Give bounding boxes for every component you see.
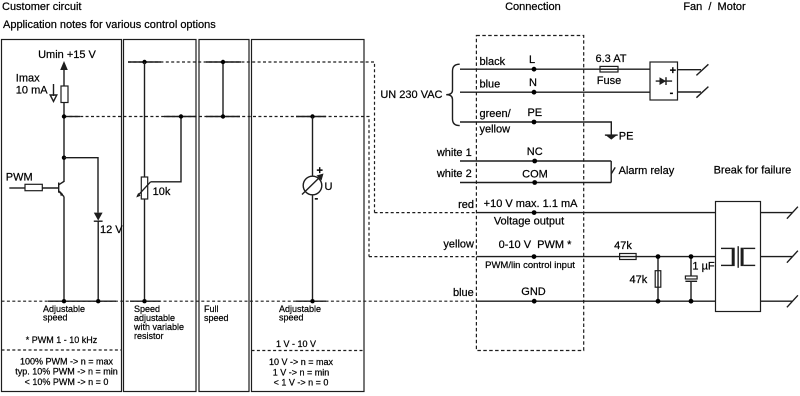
- svg-text:yellow: yellow: [480, 124, 511, 136]
- svg-text:Voltage output: Voltage output: [494, 216, 564, 228]
- svg-text:47k: 47k: [630, 274, 648, 286]
- svg-text:COM: COM: [522, 169, 548, 181]
- svg-text:* PWM 1 - 10 kHz: * PWM 1 - 10 kHz: [26, 335, 98, 345]
- svg-text:0-10 V PWM *: 0-10 V PWM *: [499, 239, 572, 251]
- svg-text:-: -: [315, 193, 319, 205]
- svg-text:1 µF: 1 µF: [692, 261, 715, 273]
- svg-text:Connection: Connection: [505, 1, 561, 13]
- svg-text:Alarm relay: Alarm relay: [619, 165, 675, 177]
- svg-text:Application notes for various: Application notes for various control op…: [3, 19, 216, 31]
- svg-text:resistor: resistor: [134, 331, 164, 341]
- svg-text:PE: PE: [619, 131, 634, 143]
- svg-text:white 1: white 1: [436, 147, 472, 159]
- svg-text:Umin +15 V: Umin +15 V: [38, 49, 96, 61]
- svg-text:PWM: PWM: [6, 172, 33, 184]
- svg-text:Fan / Motor: Fan / Motor: [683, 1, 746, 13]
- svg-text:Fuse: Fuse: [597, 75, 621, 87]
- svg-text:speed: speed: [43, 313, 68, 323]
- svg-text:Break for failure: Break for failure: [714, 165, 792, 177]
- svg-text:L: L: [529, 54, 535, 66]
- svg-text:typ. 10% PWM -> n = min: typ. 10% PWM -> n = min: [15, 367, 118, 377]
- svg-text:1 V -> n = min: 1 V -> n = min: [273, 368, 330, 378]
- svg-text:GND: GND: [521, 286, 546, 298]
- svg-text:47k: 47k: [614, 240, 632, 252]
- svg-text:12 V: 12 V: [100, 224, 123, 236]
- svg-text:Customer circuit: Customer circuit: [2, 1, 81, 13]
- svg-text:-: -: [670, 87, 674, 99]
- svg-text:PE: PE: [527, 107, 542, 119]
- svg-text:10 V -> n = max: 10 V -> n = max: [269, 357, 334, 367]
- svg-text:blue: blue: [453, 287, 474, 299]
- svg-text:blue: blue: [480, 79, 501, 91]
- svg-text:red: red: [458, 199, 474, 211]
- svg-text:N: N: [529, 77, 537, 89]
- svg-text:speed: speed: [279, 313, 304, 323]
- svg-text:+: +: [317, 165, 323, 177]
- svg-text:+10 V max. 1.1 mA: +10 V max. 1.1 mA: [484, 198, 579, 210]
- svg-text:UN 230 VAC: UN 230 VAC: [380, 89, 442, 101]
- svg-text:6.3 AT: 6.3 AT: [596, 53, 627, 65]
- svg-text:speed: speed: [204, 313, 229, 323]
- svg-text:1 V - 10 V: 1 V - 10 V: [276, 339, 316, 349]
- svg-text:yellow: yellow: [443, 239, 474, 251]
- svg-text:white 2: white 2: [436, 168, 472, 180]
- svg-text:PWM/lin control input: PWM/lin control input: [485, 260, 575, 271]
- svg-text:NC: NC: [527, 146, 543, 158]
- svg-text:green/: green/: [480, 108, 512, 120]
- svg-text:U: U: [325, 181, 333, 193]
- svg-text:10 mA: 10 mA: [16, 85, 48, 97]
- svg-text:100% PWM -> n = max: 100% PWM -> n = max: [20, 357, 114, 367]
- svg-text:+: +: [670, 65, 676, 77]
- svg-text:< 1 V -> n = 0: < 1 V -> n = 0: [274, 378, 329, 388]
- svg-text:< 10% PWM -> n = 0: < 10% PWM -> n = 0: [25, 377, 109, 387]
- svg-text:Imax: Imax: [16, 73, 40, 85]
- svg-text:10k: 10k: [153, 186, 171, 198]
- svg-text:black: black: [480, 56, 506, 68]
